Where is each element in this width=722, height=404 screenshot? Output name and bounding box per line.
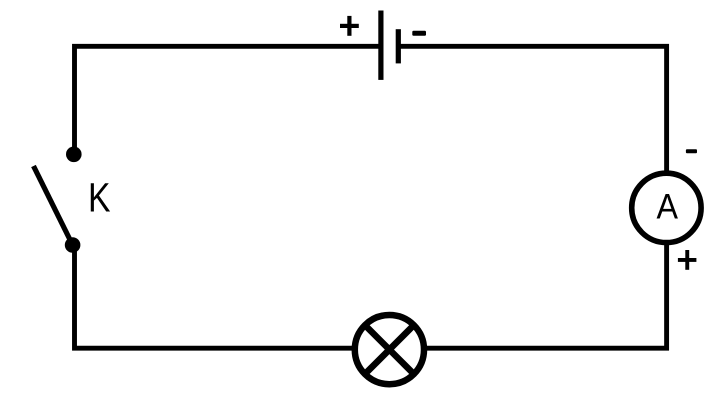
wire: right loop - top-right corner run (battery - plate to ammeter top)	[398, 46, 667, 208]
ammeter A1 body	[632, 173, 701, 242]
switch K bottom terminal	[65, 237, 81, 253]
battery B1 negative (short) plate	[396, 29, 401, 63]
wire: bottom-left run (switch bottom to lamp)	[75, 240, 390, 348]
ammeter terminal label +	[678, 250, 697, 270]
lamp L1 body	[355, 315, 424, 384]
battery B1 positive (long) plate	[378, 11, 383, 80]
lamp L1 cross	[365, 325, 414, 374]
ammeter terminal label -	[686, 149, 697, 153]
switch K blade (open)	[34, 166, 73, 245]
svg-text:A: A	[657, 187, 679, 226]
battery polarity label +	[340, 16, 359, 36]
wire: left loop - top-left corner run (switch top to battery + plate)	[75, 46, 382, 150]
svg-text:K: K	[88, 174, 111, 220]
battery polarity label -	[412, 31, 426, 36]
wire: bottom-right run (lamp to ammeter bottom)	[389, 245, 667, 348]
switch K top terminal	[66, 147, 82, 163]
